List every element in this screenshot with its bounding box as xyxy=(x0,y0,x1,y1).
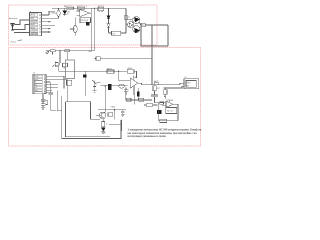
resistor R17 inline xyxy=(154,82,158,84)
wire X1 right xyxy=(145,24,168,26)
svg-text:ОБЩ: ОБЩ xyxy=(110,106,115,108)
capacitor C4 electrolytic xyxy=(108,84,111,90)
resistor R7 xyxy=(153,86,156,91)
Q5 leads xyxy=(96,112,105,119)
connector X2 xyxy=(95,57,101,60)
U4 row texts xyxy=(34,76,38,92)
wire r12 drop xyxy=(66,52,68,60)
svg-text:У1: У1 xyxy=(33,73,35,75)
capacitor C7 electrolytic xyxy=(137,88,140,100)
arrow pin 3 xyxy=(49,21,52,23)
wire R6 right drop xyxy=(134,71,137,78)
arrow title xyxy=(18,39,22,40)
wire v121.7 xyxy=(121,119,123,131)
filter Z1 xyxy=(98,7,104,11)
rail y100 xyxy=(126,99,152,101)
LED VD4 xyxy=(102,127,106,131)
node rail junction xyxy=(94,8,95,9)
ground G5 xyxy=(93,91,97,92)
U1 internal row labels xyxy=(31,14,38,35)
node x105 xyxy=(105,85,106,86)
transistor Q3 xyxy=(128,22,134,28)
capacitor C8 xyxy=(121,110,125,115)
svg-text:Х1: Х1 xyxy=(184,77,186,79)
svg-text:ВЫХ1: ВЫХ1 xyxy=(31,24,35,26)
U1 pin1 marker xyxy=(30,11,32,13)
wire node down xyxy=(59,51,61,64)
trimmer RP1 xyxy=(70,18,77,36)
svg-text:10к: 10к xyxy=(112,33,115,35)
svg-text:Антенна: Антенна xyxy=(9,17,18,20)
wire drop x152 xyxy=(151,25,153,85)
shield box xyxy=(66,60,75,79)
svg-text:1к: 1к xyxy=(106,124,108,126)
svg-text:ОБЩ: ОБЩ xyxy=(51,13,56,15)
crystal box X5 xyxy=(67,80,72,85)
U1 pin wires xyxy=(42,15,59,32)
svg-text:УД6: УД6 xyxy=(134,77,137,79)
dashed frame bottom section xyxy=(9,48,201,147)
transistor Q5 xyxy=(99,112,106,119)
wire big L1 xyxy=(62,96,121,139)
wire R4 to rail x126 xyxy=(109,32,112,34)
resistor R2 xyxy=(77,7,84,9)
rail y50.6 xyxy=(55,50,94,52)
capacitor C3 polarized xyxy=(83,71,86,96)
wire pin1 up xyxy=(49,11,55,15)
wire output node xyxy=(139,22,141,25)
IC U1 receiver box xyxy=(30,13,42,36)
U4 rows xyxy=(34,75,42,93)
resistor R5 xyxy=(107,70,114,73)
oval mark xyxy=(119,84,125,88)
ground G4 xyxy=(101,133,105,134)
wire node down to U2 xyxy=(119,71,131,80)
U4 pin wires xyxy=(46,76,68,101)
box X6 xyxy=(108,113,113,116)
top rail wire xyxy=(52,7,126,9)
op-amp U3 xyxy=(155,99,174,107)
feedback box A1 xyxy=(80,18,91,23)
wire op-amp out up to rail xyxy=(90,8,92,13)
diode VD1 xyxy=(63,8,67,15)
svg-text:Вх: Вх xyxy=(34,82,36,84)
diode VD2 xyxy=(107,8,110,19)
svg-text:Вых: Вых xyxy=(34,84,37,86)
crystal ZQ1 box xyxy=(63,63,68,66)
resistor R9 xyxy=(139,98,144,101)
svg-text:интеграции указанные в схеме: интеграции указанные в схеме xyxy=(128,135,167,138)
wire U2 power drops xyxy=(125,88,127,101)
node y50.6 xyxy=(59,50,60,51)
resistor R12 xyxy=(65,50,70,52)
svg-text:ПИТ: ПИТ xyxy=(31,18,34,20)
wire left drop xyxy=(157,103,159,121)
arrow pin 5 xyxy=(49,28,52,30)
rail drop x126 xyxy=(125,8,127,32)
wire X2 right xyxy=(100,57,152,59)
connector X4 xyxy=(184,79,199,89)
rail2 to X4 xyxy=(164,86,185,88)
resistor R18 xyxy=(164,90,167,94)
svg-text:Пит: Пит xyxy=(34,87,37,89)
svg-text:УД1208: УД1208 xyxy=(166,100,173,102)
wire r11 stub xyxy=(52,52,54,55)
U4 pin stubs xyxy=(44,76,46,94)
capacitor C5 xyxy=(124,88,129,96)
pot RP2 arrow xyxy=(46,51,49,54)
resistor R1 xyxy=(67,7,74,9)
note text block xyxy=(128,128,202,138)
trimmer RP3 xyxy=(92,80,100,91)
Q2 emitter arrow xyxy=(135,28,140,33)
capacitor C10 solid xyxy=(157,110,162,114)
resistor R3 xyxy=(125,15,127,20)
svg-text:R7: R7 xyxy=(157,88,159,90)
resistor R8 xyxy=(126,98,131,101)
svg-text:Такт2: Такт2 xyxy=(34,79,38,81)
node x134.9 xyxy=(134,99,135,100)
wire drops right xyxy=(113,110,115,120)
arrow pin 6 xyxy=(49,31,52,33)
wire big L2 xyxy=(66,102,101,120)
resistor R11 xyxy=(50,50,55,52)
antenna ANT1 xyxy=(11,24,15,31)
node rail x114.4 xyxy=(114,109,115,110)
ground G3 xyxy=(41,107,45,109)
svg-text:R15 1к: R15 1к xyxy=(167,111,173,113)
ground tick xyxy=(89,51,92,53)
wire big L3 xyxy=(66,102,111,137)
op-amp U2 xyxy=(130,76,141,95)
inductor L1 xyxy=(57,8,60,18)
wire x105 drop xyxy=(104,86,106,112)
wire R18 top xyxy=(164,88,166,90)
wire rail drop x94 xyxy=(93,8,95,50)
ground G6 xyxy=(121,114,125,116)
wire rail drop x91 xyxy=(90,13,92,52)
power flag xyxy=(164,94,166,99)
svg-text:Такт1: Такт1 xyxy=(34,76,38,78)
Q3 arrow xyxy=(129,23,133,26)
capacitor C11 xyxy=(48,82,56,110)
rail y85.9 xyxy=(101,85,128,87)
Q1 emitter arrow xyxy=(135,17,140,22)
connector X1 xyxy=(141,23,145,26)
resistor R4 xyxy=(112,31,121,35)
capacitor C1 xyxy=(86,22,90,25)
wire q5 to r16 xyxy=(102,119,104,122)
wire U3 out drop xyxy=(173,104,178,120)
resistor R10 xyxy=(146,104,153,107)
box value xyxy=(160,119,167,122)
transistor Q4 xyxy=(52,62,58,68)
transistor Q1 xyxy=(133,17,140,24)
wire cluster drop xyxy=(58,66,60,72)
node rail x108 xyxy=(108,8,109,9)
rail y71.3 xyxy=(59,70,128,72)
wire drop x168 xyxy=(167,25,169,46)
wire Q1 collector xyxy=(126,19,133,20)
wire X1 down left xyxy=(141,27,168,46)
wire Q3 base xyxy=(126,24,128,26)
resistor R6 xyxy=(127,70,134,73)
svg-text:М1: М1 xyxy=(187,85,190,87)
capacitor C2 xyxy=(58,62,59,65)
X4 inner xyxy=(186,81,196,88)
svg-text:Вых: Вых xyxy=(142,25,145,27)
capacitor C9 xyxy=(151,91,158,103)
wire h124.9 xyxy=(109,124,122,126)
U1 pin stubs xyxy=(40,14,42,33)
box U3 feedback xyxy=(166,108,177,114)
svg-text:ВЫХ2: ВЫХ2 xyxy=(31,27,35,29)
wire node drop xyxy=(134,100,136,104)
IC U4 box xyxy=(33,74,46,94)
rail y109.7 xyxy=(98,109,126,111)
dashed frame top section xyxy=(9,5,158,45)
transistor Q2 xyxy=(133,26,140,33)
rail to X4 xyxy=(142,84,155,86)
wire R10 line xyxy=(144,104,146,106)
wire antenna to U1 pin rows xyxy=(13,20,30,33)
bottom wire xyxy=(158,120,178,122)
wire v57 xyxy=(57,90,62,110)
crystal cluster caps xyxy=(41,94,48,107)
node x118 xyxy=(118,71,119,72)
wire U2 out junction xyxy=(141,83,143,85)
U1 row texts xyxy=(31,15,38,36)
zener VD3 xyxy=(107,19,110,33)
resistor R16 xyxy=(102,122,105,127)
svg-text:1к: 1к xyxy=(128,16,130,18)
op-amp U1.1 xyxy=(77,9,92,16)
svg-text:Пба-1: Пба-1 xyxy=(11,42,18,44)
resistor R14 xyxy=(160,102,164,104)
